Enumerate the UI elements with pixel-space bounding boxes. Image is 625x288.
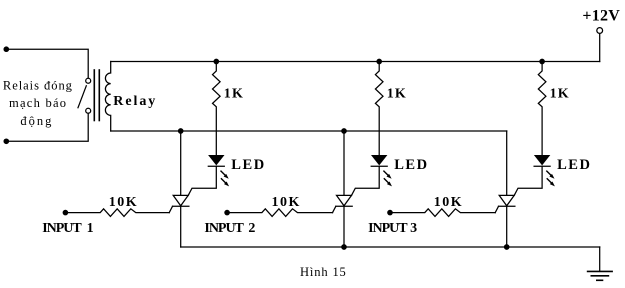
node middle bus / Q2 anode <box>342 129 346 133</box>
svg-text:1K: 1K <box>224 87 243 102</box>
resistor R4 10K <box>65 209 169 217</box>
LED D1 <box>188 155 229 195</box>
SCR Q2 <box>333 131 353 247</box>
node top bus / R1 <box>214 59 218 63</box>
bottom bus wire <box>181 246 600 248</box>
wire ground drop <box>599 247 601 271</box>
svg-text:10K: 10K <box>434 195 462 210</box>
node top bus / R3 <box>540 59 544 63</box>
svg-text:1K: 1K <box>550 87 569 102</box>
ground <box>588 271 613 280</box>
resistor R6 10K <box>390 209 495 217</box>
resistor R2 1K <box>375 62 383 156</box>
svg-text:1: 1 <box>87 221 94 236</box>
svg-text:1K: 1K <box>387 87 406 102</box>
relay core bar 1 <box>93 70 95 121</box>
svg-text:INPUT: INPUT <box>42 221 82 236</box>
LED D3 <box>514 155 555 195</box>
wire top contact lead <box>6 49 88 78</box>
svg-text:2: 2 <box>248 221 255 236</box>
relay switch contact bottom <box>86 108 91 113</box>
top bus wire <box>111 61 600 63</box>
relay switch contact top <box>86 78 91 83</box>
svg-text:Relay: Relay <box>113 94 155 109</box>
relay coil <box>105 62 110 132</box>
middle bus wire <box>111 130 507 132</box>
input terminal 1 <box>63 210 67 214</box>
wire bottom contact lead <box>6 113 88 141</box>
svg-text:Hình 15: Hình 15 <box>300 265 346 279</box>
input terminal 2 <box>225 210 229 214</box>
SCR Q3 <box>495 131 515 247</box>
svg-text:INPUT: INPUT <box>368 221 408 236</box>
svg-text:Relais đóng: Relais đóng <box>3 79 73 93</box>
wire +12V drop to top bus <box>599 34 601 62</box>
svg-text:INPUT: INPUT <box>204 221 244 236</box>
SCR Q1 <box>169 131 189 247</box>
node middle bus / Q1 anode <box>179 129 183 133</box>
LED D2 <box>352 155 393 195</box>
svg-text:mạch báo: mạch báo <box>9 96 66 110</box>
input terminal 3 <box>388 210 392 214</box>
svg-text:10K: 10K <box>272 195 300 210</box>
svg-text:LED: LED <box>557 157 590 173</box>
resistor R3 1K <box>538 62 546 156</box>
relay contact terminal bottom <box>4 139 8 143</box>
node top bus / R2 <box>377 59 381 63</box>
node bottom bus / Q2 cathode <box>342 245 346 249</box>
svg-text:LED: LED <box>394 157 427 173</box>
svg-text:10K: 10K <box>109 195 137 210</box>
svg-text:3: 3 <box>410 221 417 236</box>
resistor R1 1K <box>213 62 221 156</box>
resistor R5 10K <box>227 209 332 217</box>
relay contact terminal top <box>4 47 8 51</box>
relay core bar 2 <box>98 70 100 121</box>
svg-text:LED: LED <box>231 157 264 173</box>
svg-text:động: động <box>20 114 52 128</box>
svg-text:+12V: +12V <box>582 8 620 25</box>
+12V supply terminal <box>597 28 603 34</box>
relay switch blade <box>78 86 86 108</box>
node bottom bus / Q3 cathode <box>505 245 509 249</box>
